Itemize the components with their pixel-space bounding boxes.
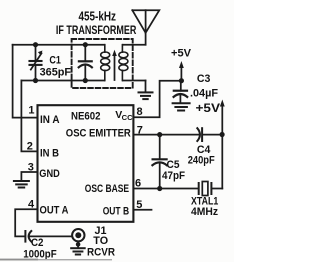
label OUT B bbox=[103, 205, 130, 217]
wire bottom net C1/primary bbox=[21, 80, 104, 82]
value 1000pF bbox=[23, 249, 57, 261]
capacitor C4 240pF bbox=[197, 128, 202, 141]
label +5V (rail) bbox=[196, 101, 221, 115]
svg-text:TO: TO bbox=[93, 235, 108, 247]
svg-text:8: 8 bbox=[137, 106, 143, 118]
node pin7/C5 bbox=[157, 132, 162, 137]
wire C2 to J1 bbox=[30, 235, 72, 237]
crystal XTAL1 bbox=[199, 182, 212, 196]
pin 6 bbox=[135, 177, 141, 189]
antenna bbox=[132, 10, 159, 33]
label Vcc bbox=[115, 109, 133, 122]
wire secondary bottom lead bbox=[123, 80, 146, 82]
value 240pF bbox=[188, 154, 215, 166]
tuning arrow bbox=[112, 50, 117, 80]
pin 5 bbox=[136, 199, 142, 211]
capacitor C3 .04uF bbox=[174, 81, 188, 103]
svg-text:47pF: 47pF bbox=[162, 170, 185, 182]
svg-text:GND: GND bbox=[39, 168, 60, 180]
node cap top bbox=[83, 42, 88, 47]
svg-text:OUT B: OUT B bbox=[103, 205, 130, 217]
label OSC BASE bbox=[85, 183, 129, 195]
ground (C3) bbox=[173, 103, 190, 110]
wire left rail to pin 1 bbox=[13, 45, 38, 118]
svg-text:2: 2 bbox=[27, 140, 33, 152]
svg-text:OSC BASE: OSC BASE bbox=[85, 183, 129, 195]
inductor primary bbox=[101, 45, 110, 81]
+5V arrow (rail) bbox=[220, 100, 225, 135]
node C1 top bbox=[33, 42, 38, 47]
wire secondary top lead bbox=[123, 44, 146, 46]
svg-text:+5V: +5V bbox=[196, 101, 221, 115]
pin 2 bbox=[27, 140, 33, 152]
svg-text:.04µF: .04µF bbox=[190, 88, 218, 100]
label IN B bbox=[40, 147, 59, 159]
capacitor C5 47pF bbox=[152, 135, 166, 189]
svg-text:6: 6 bbox=[135, 177, 141, 189]
svg-text:240pF: 240pF bbox=[188, 154, 215, 166]
label IN A bbox=[40, 114, 60, 126]
pin 1 bbox=[28, 105, 34, 117]
svg-text:RCVR: RCVR bbox=[87, 247, 115, 259]
value .04uF bbox=[190, 88, 218, 100]
label C5 bbox=[167, 159, 180, 171]
IC U1 NE602 box bbox=[38, 105, 134, 222]
node cap bottom bbox=[83, 78, 88, 83]
label C2 bbox=[31, 237, 44, 249]
capacitor internal (transformer) bbox=[79, 45, 92, 81]
label GND bbox=[39, 168, 60, 180]
connector J1 bbox=[72, 229, 84, 247]
wire rail down bbox=[221, 134, 223, 188]
inductor secondary bbox=[119, 45, 128, 81]
pin 3 bbox=[28, 161, 34, 173]
wire pin 5 stub bbox=[133, 209, 151, 211]
pin 7 bbox=[137, 125, 143, 137]
svg-text:1: 1 bbox=[28, 105, 34, 117]
transformer T1 dashed box bbox=[72, 39, 133, 88]
wire C4 to rail bbox=[203, 134, 223, 136]
label OUT A bbox=[40, 204, 69, 216]
ground (J1) bbox=[71, 248, 85, 254]
svg-text:C3: C3 bbox=[197, 73, 211, 85]
svg-text:OSC EMITTER: OSC EMITTER bbox=[66, 128, 131, 140]
value 365pF bbox=[40, 67, 72, 79]
title IF TRANSFORMER bbox=[56, 23, 137, 37]
wire antenna feed bbox=[145, 33, 147, 45]
svg-text:C1: C1 bbox=[49, 54, 61, 66]
svg-text:455-kHz: 455-kHz bbox=[79, 8, 117, 23]
wire C1 bottom to pin 2 bbox=[21, 81, 37, 152]
svg-text:+5V: +5V bbox=[171, 47, 192, 59]
svg-text:IN A: IN A bbox=[40, 114, 60, 126]
capacitor C1 (variable 365pF) bbox=[30, 45, 43, 81]
label OSC EMITTER bbox=[66, 128, 131, 140]
value 47pF bbox=[162, 170, 185, 182]
node C4/rail bbox=[220, 132, 225, 137]
label C4 bbox=[197, 144, 211, 156]
ground (transformer secondary) bbox=[139, 92, 153, 99]
pin 4 bbox=[28, 198, 35, 210]
svg-text:IN B: IN B bbox=[40, 147, 59, 159]
wire pin 7 bbox=[133, 134, 199, 136]
label NE602 bbox=[71, 111, 101, 123]
label J1 bbox=[95, 225, 107, 237]
wire XTAL to rail bbox=[212, 188, 222, 190]
wire pin 6 bbox=[133, 188, 198, 190]
svg-text:C2: C2 bbox=[31, 237, 44, 249]
svg-text:CC: CC bbox=[122, 113, 133, 122]
label C3 bbox=[197, 73, 211, 85]
scan artifacts bbox=[0, 259, 112, 261]
wire pin 4 to C2 bbox=[15, 209, 37, 236]
svg-text:OUT A: OUT A bbox=[40, 204, 69, 216]
+5V arrow (pin 8) bbox=[179, 61, 184, 80]
pin 8 bbox=[137, 106, 143, 118]
label C1 bbox=[49, 54, 61, 66]
wire top net C1/primary bbox=[13, 44, 105, 46]
wire pin 3 to ground bbox=[21, 172, 37, 180]
node +5V/C3 bbox=[179, 78, 184, 83]
node C1 bottom bbox=[33, 78, 38, 83]
svg-text:365pF: 365pF bbox=[40, 67, 72, 79]
wire secondary to ground bbox=[145, 81, 147, 92]
node pin6/C5 bbox=[157, 186, 162, 191]
svg-text:IF TRANSFORMER: IF TRANSFORMER bbox=[56, 23, 137, 37]
ground (pin 3) bbox=[14, 181, 29, 188]
value 4MHz bbox=[191, 206, 219, 218]
label RCVR bbox=[87, 247, 115, 259]
title 455-kHz bbox=[79, 8, 117, 23]
label +5V bbox=[171, 47, 192, 59]
capacitor C2 1000pF bbox=[25, 231, 31, 242]
svg-text:NE602: NE602 bbox=[71, 111, 101, 123]
wire pin 8 to +5V node bbox=[133, 81, 181, 118]
svg-text:4MHz: 4MHz bbox=[191, 206, 219, 218]
label XTAL1 bbox=[191, 196, 218, 208]
label TO bbox=[93, 235, 108, 247]
